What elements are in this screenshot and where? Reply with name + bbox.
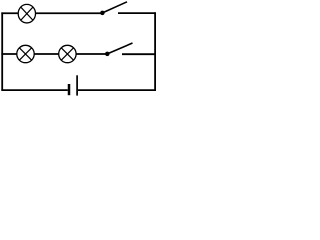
wire top middle segment	[35, 12, 102, 14]
switch S2 pivot dot	[105, 52, 110, 57]
switch S1 pivot dot	[100, 11, 105, 16]
wire right vertical	[154, 12, 156, 91]
lamp L2	[17, 45, 34, 62]
switch S2 fixed contact	[122, 53, 156, 55]
wire left vertical	[1, 12, 3, 91]
battery short plate (thick)	[68, 84, 71, 95]
lamp L1	[18, 4, 35, 23]
wire middle branch left segment	[1, 53, 17, 55]
wire bottom right segment	[78, 89, 156, 91]
lamp L3	[59, 45, 76, 62]
battery long plate (thin)	[76, 75, 78, 95]
wire between lamps	[34, 53, 59, 55]
wire top left segment	[1, 12, 18, 14]
wire bottom left segment	[1, 89, 67, 91]
wire middle segment to switch	[76, 53, 108, 55]
switch S1 fixed contact	[118, 12, 156, 14]
switch S1 blade (open)	[102, 2, 127, 13]
switch S2 blade (open)	[107, 43, 132, 54]
